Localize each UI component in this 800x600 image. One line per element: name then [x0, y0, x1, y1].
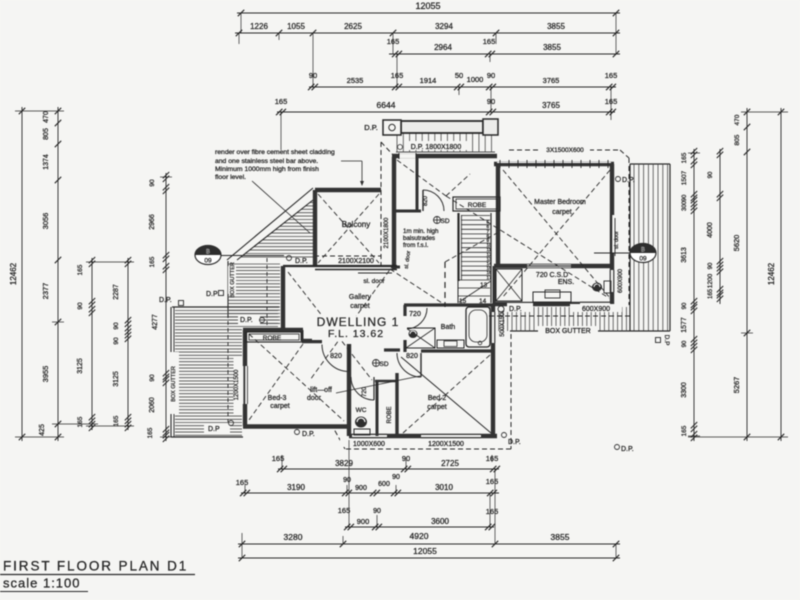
- svg-text:90: 90: [149, 374, 156, 382]
- svg-text:2535: 2535: [347, 76, 364, 85]
- dashed ceiling diagonal stair hall: [397, 160, 470, 196]
- svg-text:820: 820: [406, 353, 418, 360]
- svg-text:BOX GUTTER: BOX GUTTER: [230, 262, 236, 298]
- dimension chain top row 12055: [237, 1, 620, 16]
- window 1000X600 in bottom wall: [352, 434, 387, 437]
- svg-text:165: 165: [272, 454, 285, 463]
- dimension chain bottom row 12055: [238, 546, 620, 561]
- note render over fibre cement: [215, 149, 364, 233]
- label 1200X1500 vertical bed3: [234, 356, 243, 414]
- svg-text:3056: 3056: [41, 213, 50, 230]
- svg-text:165: 165: [708, 288, 714, 299]
- bath shower: [406, 328, 435, 348]
- svg-text:carpet: carpet: [350, 303, 370, 310]
- svg-text:3300: 3300: [681, 382, 688, 398]
- svg-text:3280: 3280: [284, 532, 303, 542]
- label lift-off door: [307, 376, 420, 402]
- svg-text:3765: 3765: [543, 76, 560, 85]
- svg-text:1577: 1577: [681, 317, 688, 333]
- svg-text:90: 90: [708, 262, 714, 269]
- dimension chain top row 1226/1055/2625/3294/3855: [235, 22, 620, 36]
- svg-text:900: 900: [357, 517, 370, 526]
- svg-text:6644: 6644: [377, 100, 396, 110]
- svg-text:door: door: [307, 395, 322, 402]
- label 500X1500 vertical: [500, 309, 506, 337]
- svg-text:165: 165: [77, 264, 84, 275]
- svg-text:14: 14: [479, 298, 487, 305]
- wall bath bed2 right: [491, 304, 495, 436]
- svg-text:D.P: D.P: [208, 426, 220, 433]
- svg-text:1200: 1200: [707, 273, 714, 288]
- section marker B09 left: [195, 246, 221, 265]
- svg-text:90: 90: [343, 477, 351, 484]
- svg-text:3855: 3855: [547, 22, 565, 31]
- outdoor stair upper triangle treads: [241, 203, 313, 257]
- svg-text:1000X600: 1000X600: [353, 441, 385, 448]
- label bed3: [268, 395, 290, 410]
- bath toilet: [409, 330, 418, 338]
- top entry landing bar: [383, 119, 498, 135]
- svg-text:D.P. 1800X1800: D.P. 1800X1800: [411, 144, 462, 151]
- svg-text:1200X1500: 1200X1500: [428, 441, 464, 448]
- svg-text:2966: 2966: [149, 214, 156, 230]
- label 1200X1500 bottom: [414, 439, 478, 448]
- svg-text:165: 165: [681, 152, 688, 163]
- svg-text:09: 09: [639, 256, 647, 263]
- svg-text:sl. door: sl. door: [363, 278, 385, 285]
- roof outline dashed balcony bottom: [314, 255, 381, 257]
- svg-text:90: 90: [113, 322, 120, 330]
- svg-text:Bath: Bath: [441, 324, 456, 331]
- door 820 stair hall: [423, 190, 444, 211]
- svg-text:3855: 3855: [551, 532, 570, 542]
- svg-text:FIRST FLOOR PLAN D1: FIRST FLOOR PLAN D1: [3, 559, 188, 574]
- svg-text:4920: 4920: [410, 531, 429, 541]
- smoke detector SD hall: [434, 217, 450, 226]
- svg-text:90: 90: [682, 340, 688, 347]
- door 720 bath: [406, 308, 427, 329]
- svg-text:lift—off: lift—off: [310, 387, 332, 394]
- dimension chain bottom row 165/900/90/3600/165: [338, 506, 499, 530]
- label wc: [356, 407, 367, 414]
- label box gutter right: [538, 326, 598, 335]
- dimension chain left 470/805/1374/3056/2377/3955/425: [39, 107, 61, 441]
- wall bed2 left: [395, 373, 398, 436]
- label sl door gallery: [358, 273, 392, 285]
- svg-text:165: 165: [605, 71, 618, 80]
- wall bed3 right / wc left: [347, 344, 351, 436]
- svg-text:720: 720: [409, 311, 421, 318]
- wall balcony bottom sliding doors 2100X2100: [283, 266, 397, 270]
- svg-text:90: 90: [113, 337, 120, 345]
- svg-text:carpet: carpet: [552, 209, 572, 216]
- downpipe DP deck top: [159, 297, 184, 306]
- label bed2: [427, 395, 447, 411]
- svg-text:Bed-3: Bed-3: [268, 395, 287, 402]
- dashed ceiling X balcony: [318, 194, 379, 263]
- robe3 shelf box: [246, 332, 302, 342]
- svg-text:165: 165: [147, 427, 154, 438]
- svg-text:165: 165: [486, 477, 499, 486]
- staircase treads: [458, 213, 492, 305]
- svg-text:470: 470: [734, 114, 741, 125]
- svg-text:165: 165: [681, 425, 688, 436]
- svg-text:09: 09: [204, 258, 212, 265]
- label 1000X600: [340, 439, 398, 448]
- label 600X900 horizontal: [570, 304, 622, 313]
- svg-text:2100X1800: 2100X1800: [384, 217, 390, 248]
- svg-text:D.P.: D.P.: [159, 297, 172, 304]
- downpipe DP far bottom right: [615, 445, 634, 454]
- svg-text:50: 50: [455, 71, 463, 80]
- svg-text:900: 900: [355, 485, 367, 492]
- downpipe DP balcony: [287, 256, 308, 266]
- svg-text:165: 165: [113, 415, 120, 426]
- wall master bedroom top (window 3X1500X600): [494, 160, 614, 168]
- section marker B09 right: [594, 252, 630, 254]
- svg-text:90: 90: [149, 179, 156, 187]
- svg-text:2964: 2964: [434, 43, 452, 52]
- svg-text:720 C.S.D: 720 C.S.D: [536, 272, 568, 279]
- wall balcony left: [313, 190, 317, 267]
- svg-text:5267: 5267: [732, 377, 741, 394]
- svg-text:3765: 3765: [542, 101, 560, 110]
- wall bottom bed2 wc: [349, 434, 497, 438]
- wall master bedroom left: [496, 164, 500, 266]
- dimension chain bottom row 165/3190/90/900/600/90/3010/165: [236, 474, 499, 496]
- svg-text:D.P: D.P: [663, 335, 670, 346]
- svg-text:90: 90: [682, 194, 688, 201]
- svg-text:2100X2100: 2100X2100: [338, 258, 374, 265]
- svg-text:from f.s.l.: from f.s.l.: [403, 242, 429, 249]
- svg-text:15: 15: [459, 298, 467, 305]
- top entry stair treads: [396, 133, 495, 152]
- svg-text:ROBE: ROBE: [387, 406, 393, 423]
- box gutter dashed centreline: [489, 315, 630, 317]
- label 600X900 vertical: [618, 268, 624, 293]
- window 1200X1500 in bottom wall: [421, 434, 481, 437]
- downpipe DP bottom right: [502, 433, 521, 447]
- dashed ceiling X gallery: [288, 264, 394, 380]
- roof outline dashed balcony right: [381, 142, 394, 266]
- svg-text:SD: SD: [440, 218, 449, 225]
- svg-text:render over fibre cement sheet: render over fibre cement sheet cladding: [215, 149, 335, 156]
- dimension chain top row 165/2964/3855: [387, 37, 620, 57]
- svg-text:carpet: carpet: [427, 404, 447, 411]
- downpipe DP box gutter: [498, 303, 533, 313]
- svg-text:3294: 3294: [435, 22, 453, 31]
- svg-text:4000: 4000: [707, 222, 714, 238]
- wall step robe to bed3 door: [302, 330, 322, 341]
- svg-text:Bed 2: Bed 2: [428, 395, 446, 402]
- svg-text:D.P.: D.P.: [509, 306, 522, 313]
- dimension chain top row 90/2535/165/1914/50/1000/90/3765/165: [308, 71, 617, 90]
- label gallery: [349, 294, 372, 310]
- dimension chain right 470/805/5620/5267: [732, 108, 750, 441]
- downpipe DP right deck bottom: [656, 335, 671, 346]
- svg-text:and one stainless steel bar ab: and one stainless steel bar above.: [215, 158, 318, 165]
- svg-text:600: 600: [378, 481, 390, 488]
- svg-text:600X900: 600X900: [618, 268, 624, 293]
- dimension chain right 90/4000/90/1200/165: [707, 148, 723, 304]
- bath vanity: [437, 340, 464, 348]
- door 820 bed2: [397, 353, 421, 377]
- wall ens bottom: [494, 302, 612, 306]
- svg-text:3125: 3125: [77, 358, 84, 374]
- svg-text:D.P.: D.P.: [508, 439, 521, 446]
- svg-text:Gallery: Gallery: [349, 294, 372, 301]
- svg-text:90: 90: [682, 302, 688, 309]
- dimension chain left 2287/90/90/3125/165: [113, 257, 131, 431]
- svg-text:B: B: [206, 250, 210, 256]
- svg-text:165: 165: [149, 256, 156, 267]
- svg-text:ENS.: ENS.: [558, 279, 574, 286]
- downpipe DP gallery left: [238, 315, 260, 324]
- label bath: [441, 324, 456, 331]
- svg-text:500X1500: 500X1500: [500, 309, 506, 337]
- svg-text:165: 165: [77, 416, 84, 427]
- svg-text:D.P.: D.P.: [295, 258, 308, 265]
- downpipe DP stair left: [206, 291, 224, 299]
- svg-text:5620: 5620: [732, 235, 741, 252]
- bath tub: [466, 307, 490, 347]
- svg-text:12055: 12055: [413, 546, 437, 556]
- label dwelling 1: [312, 315, 407, 340]
- ens vanity: [533, 290, 571, 302]
- svg-text:1055: 1055: [287, 22, 305, 31]
- title first floor plan D1: [0, 559, 195, 575]
- dimension chain left 90/2966/165/4277/90/2060/165: [147, 172, 169, 442]
- svg-text:1226: 1226: [250, 22, 268, 31]
- label ens: [536, 272, 574, 286]
- svg-text:90: 90: [77, 302, 84, 310]
- svg-text:1200X1500: 1200X1500: [234, 369, 240, 400]
- roof outline dashed top right: [509, 150, 629, 305]
- label 1m min balustrade note: [403, 228, 439, 249]
- downpipe DP bed3 bottom: [295, 430, 315, 439]
- ens shower: [496, 269, 522, 301]
- outdoor stair lower treads: [228, 258, 280, 328]
- svg-text:WC: WC: [356, 407, 367, 414]
- svg-text:2287: 2287: [113, 284, 120, 300]
- label sl door hall vertical: [404, 250, 412, 269]
- svg-text:sl. door: sl. door: [614, 231, 620, 249]
- svg-text:Balcony: Balcony: [342, 220, 370, 229]
- svg-text:2625: 2625: [344, 22, 362, 31]
- svg-text:2725: 2725: [441, 459, 459, 468]
- svg-text:165: 165: [338, 506, 351, 515]
- downpipe DP right deck top: [616, 177, 635, 185]
- svg-text:12055: 12055: [415, 1, 440, 11]
- svg-text:1000: 1000: [467, 75, 484, 84]
- svg-text:D.P.: D.P.: [364, 123, 378, 132]
- title scale 1:100: [0, 576, 88, 592]
- svg-text:DWELLING 1: DWELLING 1: [317, 315, 400, 329]
- svg-text:1507: 1507: [681, 170, 688, 185]
- dimension chain bottom row 3280/4920/3855: [238, 531, 620, 547]
- svg-text:3613: 3613: [681, 247, 688, 263]
- wall bath bottom: [384, 350, 493, 351]
- svg-text:carpet: carpet: [270, 403, 290, 410]
- wall stair hall left: [392, 157, 400, 269]
- label balcony: [342, 220, 370, 229]
- svg-text:Minimum 1000mm high from finis: Minimum 1000mm high from finish: [215, 166, 319, 173]
- svg-text:17: 17: [487, 275, 493, 280]
- label master bedroom: [534, 199, 586, 216]
- svg-text:90: 90: [392, 474, 400, 481]
- svg-text:3125: 3125: [113, 371, 120, 387]
- svg-text:balsutrades: balsutrades: [403, 235, 435, 242]
- svg-text:12462: 12462: [767, 262, 776, 285]
- wall bath top: [404, 303, 493, 306]
- label DP 1800X1800: [398, 141, 469, 151]
- svg-text:4277: 4277: [152, 314, 159, 330]
- dashed ceiling X master bedroom: [502, 170, 610, 298]
- dimension chain right 165/1507/90/300/3613/90/1577/90/3300/165: [681, 148, 697, 441]
- left deck boards hatch: [171, 307, 279, 437]
- label 3X1500X600: [540, 145, 590, 154]
- svg-text:3600: 3600: [431, 517, 449, 526]
- svg-text:90: 90: [708, 171, 714, 178]
- svg-text:ROBE: ROBE: [263, 335, 282, 342]
- wall master ens with cavity slider 720 CSD: [494, 264, 612, 268]
- dimension chain right 12462: [767, 108, 784, 441]
- svg-text:Master Bedroom: Master Bedroom: [534, 199, 586, 206]
- svg-text:12462: 12462: [9, 262, 18, 285]
- wall balcony top: [315, 188, 381, 192]
- outdoor stair balustrade rails: [227, 188, 313, 260]
- svg-text:BOX GUTTER: BOX GUTTER: [545, 328, 591, 335]
- dimension chain left 12462: [9, 107, 25, 441]
- wall ens shower left partition: [493, 266, 496, 304]
- svg-text:D.P.: D.P.: [622, 177, 635, 184]
- window 600X900 ens right wall: [610, 270, 614, 292]
- svg-text:165: 165: [483, 37, 496, 46]
- svg-text:BOX GUTTER: BOX GUTTER: [171, 366, 177, 402]
- wall bed3 bottom: [243, 424, 349, 428]
- smoke detector SD gallery: [373, 360, 389, 369]
- svg-text:scale 1:100: scale 1:100: [3, 576, 81, 591]
- svg-text:2060: 2060: [149, 397, 156, 413]
- dashed ceiling X bed3: [249, 334, 344, 421]
- window sl door master right: [611, 215, 615, 256]
- dimension chain left 165/90/3125/165: [77, 257, 95, 431]
- svg-text:805: 805: [43, 128, 50, 140]
- bed2 diagonals: [401, 355, 491, 433]
- wall master bedroom right: [610, 164, 614, 304]
- dashed ceiling diagonal hall to ens: [446, 196, 609, 298]
- svg-text:3X1500X600: 3X1500X600: [546, 147, 584, 154]
- svg-text:1914: 1914: [420, 76, 437, 85]
- svg-text:SD: SD: [379, 361, 388, 368]
- downpipe DP deck bottom: [204, 424, 230, 433]
- label box gutter stair vertical: [228, 262, 236, 298]
- svg-text:3855: 3855: [543, 43, 561, 52]
- label DP top: [364, 123, 378, 132]
- wall robe top: [375, 380, 396, 383]
- svg-text:3010: 3010: [435, 483, 453, 492]
- svg-text:470: 470: [43, 111, 50, 123]
- svg-text:ROBE: ROBE: [468, 202, 487, 209]
- box gutter strip below ENS: [490, 307, 670, 331]
- svg-text:805: 805: [734, 134, 741, 145]
- svg-text:D.P.: D.P.: [302, 431, 315, 438]
- robe hall shelf box: [453, 197, 500, 211]
- wall stair hall top: [392, 153, 497, 159]
- svg-text:floor level.: floor level.: [215, 174, 246, 181]
- svg-text:165: 165: [236, 478, 249, 487]
- svg-text:B: B: [641, 248, 645, 254]
- svg-text:D.P.: D.P.: [240, 317, 253, 324]
- wc toilet: [354, 417, 370, 436]
- svg-text:3955: 3955: [41, 366, 50, 383]
- right deck boards hatch: [630, 164, 670, 331]
- wall bath left: [403, 305, 406, 352]
- svg-text:D.P.: D.P.: [621, 446, 634, 453]
- svg-text:165: 165: [275, 97, 288, 106]
- wall wc right / robe left: [376, 381, 379, 436]
- svg-text:300: 300: [682, 200, 688, 211]
- wall gallery left: [281, 266, 285, 331]
- roof outline dashed bottom right: [334, 334, 511, 449]
- svg-text:3190: 3190: [287, 483, 305, 492]
- svg-text:820: 820: [330, 353, 342, 360]
- label 2100X2100: [338, 258, 374, 265]
- wall bed3 left with window 1200X1500: [243, 330, 248, 426]
- svg-text:425: 425: [39, 424, 46, 436]
- ens toilet: [592, 281, 611, 293]
- svg-text:F.L. 13.62: F.L. 13.62: [328, 328, 384, 340]
- svg-text:600X900: 600X900: [582, 306, 610, 313]
- label sl door master vertical: [614, 231, 620, 249]
- svg-text:90: 90: [373, 508, 381, 515]
- svg-text:2377: 2377: [41, 283, 50, 300]
- label robe vertical bed2: [387, 406, 393, 423]
- door 820 bed3: [322, 345, 349, 372]
- door 720 wc: [351, 377, 374, 400]
- svg-text:13: 13: [480, 282, 488, 289]
- dimension chain top row 165/6644/90/3765/165: [275, 97, 618, 115]
- svg-text:820: 820: [423, 195, 429, 206]
- dashed void edge stairwell: [390, 233, 497, 307]
- dimension chain bottom row 165/3829/90/2725/165: [272, 454, 500, 472]
- label box gutter deck vertical: [170, 352, 179, 414]
- svg-text:1374: 1374: [43, 154, 50, 170]
- wall stair closet: [395, 158, 421, 212]
- svg-text:1m min. high: 1m min. high: [403, 228, 439, 235]
- label 2100X1800: [384, 217, 390, 248]
- svg-text:165: 165: [486, 507, 499, 516]
- svg-text:90: 90: [487, 71, 495, 80]
- svg-text:3829: 3829: [335, 459, 353, 468]
- wall robe3 top: [243, 328, 303, 332]
- svg-text:D.P: D.P: [206, 291, 218, 298]
